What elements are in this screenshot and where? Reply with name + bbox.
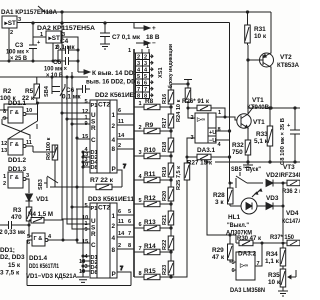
svg-text:R2: R2 [3,88,12,95]
svg-text:7: 7 [139,246,142,252]
wire ground rail right [215,161,300,163]
ground symbol bottom right [278,290,288,296]
svg-text:XS1: XS1 [158,67,164,78]
svg-text:8: 8 [128,243,131,249]
resistor ladder R14 [134,243,171,255]
svg-text:R32: R32 [232,142,244,149]
svg-text:DD1.3: DD1.3 [8,166,27,173]
svg-text:3 к: 3 к [215,199,224,206]
resistor R26 feedback [182,98,226,118]
svg-text:4: 4 [112,235,116,242]
diode VD2 [266,172,287,187]
ladder vertical resistor R16 [162,85,174,107]
wire DA3.1 -U pin4 [216,139,229,141]
svg-text:11: 11 [118,119,124,125]
svg-text:5: 5 [144,74,147,80]
counter DD2 output digits [112,108,135,153]
resistor R34 [265,243,286,269]
gate DD1.1 [3,100,32,123]
svg-text:КТ853А: КТ853А [277,62,299,69]
resistor ladder R9 [134,122,171,134]
svg-text:3: 3 [137,61,140,67]
svg-text:5: 5 [128,209,131,215]
ladder vertical resistor R17 [162,107,174,131]
wire top rail +18V [38,6,271,12]
node bundle dots [36,76,78,208]
svg-text:R10: R10 [144,147,156,154]
svg-text:P1: P1 [91,103,98,109]
svg-text:10: 10 [79,269,85,275]
svg-text:R25 7,5 к: R25 7,5 к [176,166,182,190]
svg-text:C8 100 мк × 35 В: C8 100 мк × 35 В [280,118,286,165]
wire VT1 collector node [247,108,249,114]
svg-text:6: 6 [118,108,121,114]
svg-text:7: 7 [123,164,126,170]
svg-text:R23: R23 [162,265,168,275]
wire VT1 collector up [247,45,249,114]
wire DA2 input from rail [33,23,46,37]
resistor R4 [28,211,63,240]
wire DD2 P output pin7 to R7 [112,164,126,187]
svg-text:12: 12 [1,141,7,147]
svg-text:R29: R29 [212,247,224,254]
svg-text:DD1 К561ТЛ1: DD1 К561ТЛ1 [29,263,59,270]
svg-text:▷∞: ▷∞ [239,262,248,269]
svg-text:P: P [112,166,117,173]
svg-text:2: 2 [112,123,116,130]
wire DA3.1 pin2 input [188,108,195,118]
regulator DA1 [1,9,57,36]
svg-text:R8: R8 [145,98,154,105]
svg-text:1: 1 [218,110,221,116]
svg-text:R9: R9 [145,122,154,129]
svg-text:6: 6 [232,268,235,274]
resistor R6 [33,137,58,187]
zener VD4 [282,183,302,241]
svg-text:5: 5 [232,260,235,266]
svg-text:5: 5 [85,203,88,209]
svg-text:R27 15 к: R27 15 к [187,160,213,167]
resistor ladder R12 [134,195,171,207]
ladder vertical resistor R19 [162,156,174,180]
svg-text:Г &: Г & [10,175,19,181]
capacitor C7 with ground [100,23,160,49]
svg-text:HL1: HL1 [228,214,241,221]
button SB3 [38,176,58,190]
counter DD3 output digits [112,209,135,254]
svg-text:R14: R14 [144,243,156,250]
svg-text:▸ST: ▸ST [48,35,60,42]
ladder vertical resistor R22 [162,228,174,252]
resistor R25 [176,163,190,190]
svg-text:выв. 16 DD2, DD3: выв. 16 DD2, DD3 [86,79,139,86]
wire analog ground rail [0,43,58,62]
svg-text:7: 7 [120,266,123,272]
svg-text:R35: R35 [268,272,280,279]
trimmer R35 [268,269,296,290]
svg-text:3: 3 [139,150,142,156]
wire +5V feed arrow [78,70,139,86]
svg-text:VD4: VD4 [286,210,299,217]
svg-text:+: + [152,25,156,32]
svg-text:R28: R28 [213,192,225,199]
ladder vertical resistor R20 [162,180,174,204]
op-amp DA3.1 [191,110,222,154]
resistor R5 [4,77,40,110]
svg-text:R: R [91,125,96,132]
svg-text:R6 100 к: R6 100 к [46,137,52,160]
wire ground bus [0,76,88,78]
svg-text:DD1;: DD1; [0,247,15,254]
gate DD1.4 [27,233,52,262]
svg-text:15: 15 [82,239,88,245]
svg-text:R37* 150: R37* 150 [270,234,294,241]
resistor R36 [282,180,303,195]
svg-text:R20: R20 [162,191,168,201]
ground symbol right [243,162,253,170]
wire C4 C5 ground leg [57,50,59,61]
svg-text:× 10 В: × 10 В [46,72,63,79]
svg-text:R17: R17 [162,118,168,128]
terminal R24 top [184,80,192,89]
text notes bottom left [0,247,77,280]
svg-text:2: 2 [137,54,140,60]
svg-text:1: 1 [146,44,149,50]
svg-text:IRFZ34N: IRFZ34N [279,172,300,179]
bus vertical trunk [133,49,135,277]
svg-text:C: C [91,242,96,249]
button SB5 [230,166,264,188]
wire DD1.4 output down [27,239,78,286]
svg-text:1: 1 [139,101,142,107]
resistor ladder R15 [134,268,171,280]
svg-text:9: 9 [85,121,88,127]
svg-text:8: 8 [139,271,142,277]
button SB4 [44,76,65,97]
svg-text:2: 2 [144,54,147,60]
svg-text:1: 1 [112,112,116,119]
svg-text:SB4: SB4 [44,85,50,97]
wire VT1 emitter to R32 [247,128,249,140]
svg-text:8: 8 [137,93,140,99]
wire DA3.1 +U supply [216,23,231,184]
svg-text:3: 3 [26,173,29,179]
node ladder dots [170,106,172,278]
svg-text:15: 15 [82,134,88,140]
wire DA1 pin2 down [8,28,10,61]
resistor R24 [176,88,191,122]
svg-text:6: 6 [137,80,140,86]
svg-text:1: 1 [3,174,6,180]
svg-text:2: 2 [10,30,13,36]
svg-text:2: 2 [118,143,121,149]
wire indicator power arrow minus [136,40,156,47]
svg-text:SB3: SB3 [38,179,44,190]
svg-text:10 к: 10 к [254,33,267,40]
capacitor C8 electrolytic [280,108,300,165]
svg-text:DA3 LM358N: DA3 LM358N [230,287,265,294]
LED HL1 [226,189,266,237]
svg-text:1,1 к: 1,1 к [265,258,280,265]
svg-text:10: 10 [26,108,32,114]
resistor R7 [90,177,114,190]
svg-text:6: 6 [118,209,121,215]
wire D-input common [83,152,90,277]
svg-text:6: 6 [139,222,142,228]
svg-text:R16: R16 [162,94,168,104]
wire VT2 emitter top [270,12,273,53]
svg-text:R4 1,5 М: R4 1,5 М [28,211,53,218]
wire DA2 pin3 output [61,37,78,72]
capacitor C3 [6,23,41,62]
ladder vertical resistor R21 [162,204,174,228]
svg-text:CT2: CT2 [98,205,111,212]
wire DA3.1 pin3 node [186,138,195,163]
svg-text:VT3: VT3 [283,164,295,171]
svg-text:−: − [152,40,156,47]
svg-text:2: 2 [3,181,6,187]
svg-text:R13: R13 [144,219,156,226]
svg-text:R26* 91 к: R26* 91 к [182,98,210,105]
svg-text:КС147А: КС147А [282,218,300,225]
capacitor C5 [44,57,78,79]
svg-text:3: 3 [18,17,21,23]
svg-text:К выв. 14 DD1,: К выв. 14 DD1, [92,70,139,77]
svg-text:▸ST: ▸ST [4,20,16,27]
svg-text:VD1: VD1 [36,196,49,203]
op-amp DA3.2 [230,242,265,294]
resistor R33 [254,108,273,162]
svg-text:VT1: VT1 [252,97,264,104]
svg-text:6: 6 [128,219,131,225]
svg-text:5: 5 [85,99,88,105]
svg-text:14: 14 [118,133,125,139]
svg-text:R15: R15 [144,268,156,275]
wire second rail from DA1 output [17,22,230,24]
svg-text:C7 0,1 мк: C7 0,1 мк [112,34,141,41]
svg-text:SB5 "Пуск": SB5 "Пуск" [231,166,261,173]
wire DD3 P pin7 loop [117,266,131,286]
resistor R31 [245,12,267,61]
regulator DA2 [37,25,95,51]
svg-text:DA2 КР1157ЕН5А: DA2 КР1157ЕН5А [37,25,95,32]
resistor R2 label [0,88,16,102]
svg-text:470: 470 [11,214,22,221]
svg-text:R34: R34 [266,251,278,258]
resistor R28 [213,182,233,206]
capacitor C2 [0,221,30,236]
svg-text:8: 8 [112,146,116,153]
resistor ladder R10 [134,147,171,159]
wire right supply rail [248,107,300,109]
counter DD3 [79,196,134,278]
svg-text:R31: R31 [254,26,266,33]
wire ground left drop to DA3.2 [206,161,236,235]
svg-text:5,1 к: 5,1 к [254,138,269,145]
svg-text:С2 0,33 мк: С2 0,33 мк [0,229,26,236]
resistor R29 [212,234,236,262]
svg-text:11: 11 [26,140,32,146]
svg-text:15 к: 15 к [8,262,21,269]
svg-text:DA3.1: DA3.1 [197,147,216,154]
diode VD1 [26,194,49,207]
svg-text:2: 2 [112,223,116,230]
wire bus bundle verticals [38,23,97,243]
svg-text:R21: R21 [162,215,168,225]
svg-text:+U: +U [209,130,216,136]
svg-text:R33: R33 [256,131,268,138]
svg-text:DA3.2: DA3.2 [238,251,257,258]
node C leg dots [57,49,79,62]
wire DD1 cross coupling [0,103,38,152]
svg-text:3: 3 [144,61,147,67]
resistor R32 [232,140,251,162]
diode VD3 [266,195,283,210]
capacitor C4 [56,38,78,54]
svg-text:C: C [91,137,96,144]
svg-text:VD2: VD2 [266,172,279,179]
ladder vertical resistor R18 [162,131,174,156]
ground bottom [77,277,89,282]
svg-text:R30 47 к: R30 47 к [237,235,262,242]
wire DA3.1 output to VT1 [216,117,241,120]
text VT3 [279,164,303,179]
svg-text:D2, DD3: D2, DD3 [0,254,25,261]
svg-text:R5: R5 [25,88,34,95]
gate DD1.2 [1,139,32,164]
transistor VT1 [237,97,270,128]
capacitor C6 [62,85,90,101]
svg-text:R12: R12 [144,195,156,202]
svg-text:R11: R11 [144,171,156,178]
svg-text:9: 9 [3,116,6,122]
svg-text:R3: R3 [13,207,22,214]
resistor R27 [187,154,231,166]
svg-text:8: 8 [218,127,221,133]
svg-text:11: 11 [118,219,124,225]
svg-text:VT1: VT1 [253,119,265,126]
svg-text:P1: P1 [91,206,98,212]
svg-text:−U: −U [209,138,216,144]
svg-text:D8: D8 [91,165,98,171]
svg-text:8: 8 [112,247,116,254]
svg-text:14: 14 [118,231,125,237]
wire DD1.3 output to VD1 [26,179,29,193]
resistor ladder R8 [134,98,171,110]
svg-text:R22: R22 [162,240,168,250]
svg-text:3 7,5 к: 3 7,5 к [0,270,20,277]
svg-text:4: 4 [112,137,116,144]
svg-text:VD1−VD3 КД521А: VD1−VD3 КД521А [26,273,77,280]
svg-text:R18: R18 [162,142,168,152]
svg-text:2: 2 [139,125,142,131]
wire indicator power arrow plus [134,23,156,32]
svg-text:DD1.4: DD1.4 [29,255,48,262]
svg-text:13: 13 [1,148,7,154]
svg-text:R19: R19 [162,167,168,177]
wire rail link [61,12,63,23]
svg-text:P: P [112,271,117,278]
svg-text:7: 7 [128,231,131,237]
svg-text:Г &: Г & [10,142,19,148]
connector XS1 [128,43,174,99]
svg-text:Г &: Г & [10,110,19,116]
svg-text:6: 6 [144,80,147,86]
svg-text:DA1 КР1157ЕН18А: DA1 КР1157ЕН18А [1,9,57,16]
svg-text:5: 5 [137,74,140,80]
gate DD1.3 [3,166,29,188]
svg-text:R7 22 к: R7 22 к [90,177,114,184]
svg-text:DD1.2: DD1.2 [8,157,27,164]
counter DD2 [82,92,141,173]
wire bottom rail [27,285,131,287]
ladder vertical resistor R23 [162,252,174,277]
wire ladder top tie [171,83,189,85]
svg-text:1: 1 [112,213,116,220]
svg-text:VD3: VD3 [266,195,279,202]
svg-text:10: 10 [82,162,88,168]
wire ladder bottom tie [171,180,187,277]
svg-text:VT2: VT2 [280,54,292,61]
svg-text:2: 2 [118,243,121,249]
svg-text:7: 7 [137,87,140,93]
resistor ladder R11 [134,171,171,183]
svg-text:1: 1 [128,48,131,54]
svg-text:750: 750 [232,149,243,156]
svg-text:"Выкл.": "Выкл." [227,222,249,229]
svg-text:R: R [91,231,96,238]
resistor ladder R13 [134,219,171,231]
node rail junctions [32,11,249,24]
resistor R3 [11,207,32,236]
transistor VT2 [248,53,299,69]
svg-text:0,1 мк: 0,1 мк [56,44,75,51]
wire VT2 collector down [270,67,273,108]
svg-text:D8: D8 [91,270,98,276]
svg-text:DD3 К561ИЕ11: DD3 К561ИЕ11 [88,196,134,203]
svg-text:10 к: 10 к [268,279,281,286]
svg-text:7: 7 [144,87,147,93]
svg-text:9: 9 [85,227,88,233]
resistor R30 [236,235,262,246]
svg-text:DD1.1: DD1.1 [8,100,27,107]
svg-text:CT2: CT2 [98,102,111,109]
svg-text:R36 2 к: R36 2 к [282,188,300,195]
node D-input dots [76,151,84,272]
svg-text:▷∞: ▷∞ [196,116,205,123]
svg-text:Г &: Г & [34,236,43,242]
svg-text:5: 5 [139,198,142,204]
svg-text:47 к: 47 к [212,254,225,261]
resistor R37 [262,234,300,246]
